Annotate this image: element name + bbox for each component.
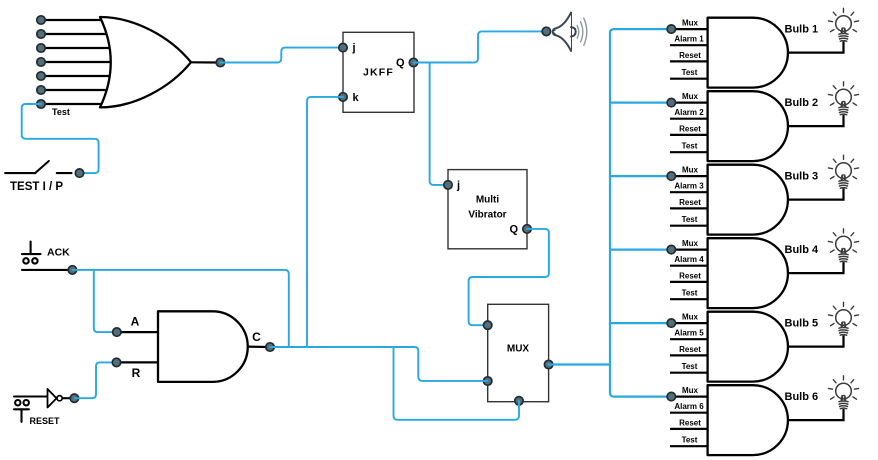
svg-text:Test: Test — [682, 289, 698, 298]
node MUX output — [544, 360, 552, 368]
wire Mux input line (gate 5) — [671, 322, 708, 324]
wire MultiVibrator Q to MUX — [469, 229, 549, 325]
wire ACK to C junction — [72, 270, 288, 347]
node OR input 2 — [37, 30, 45, 38]
wire Bulb 2 output — [788, 115, 844, 126]
wire OR output to JKFF J — [220, 48, 343, 63]
wire A input stub — [117, 331, 159, 333]
block U4 Multi Vibrator — [448, 170, 527, 249]
pushbutton ACK — [22, 242, 69, 270]
wire trunk branch to Mux 2 — [610, 101, 671, 103]
lamp Bulb 3 — [828, 155, 858, 188]
wire Reset input line (gate 6) — [670, 428, 709, 430]
wire trunk branch to Mux 4 — [610, 249, 671, 251]
wire OR input 3 — [41, 47, 115, 49]
lamp Bulb 4 — [828, 229, 858, 262]
svg-text:ACK: ACK — [47, 246, 70, 258]
svg-text:C: C — [252, 330, 261, 344]
pushbutton RESET — [14, 397, 48, 422]
wire Reset input line (gate 4) — [670, 281, 709, 283]
node MultiVibrator pin J — [444, 181, 452, 189]
wire Mux input line (gate 4) — [671, 249, 708, 251]
node OR input 6 — [37, 86, 45, 94]
svg-text:Reset: Reset — [679, 418, 701, 427]
svg-text:Alarm 1: Alarm 1 — [674, 35, 704, 44]
wire Reset input line (gate 2) — [670, 134, 709, 136]
wire Alarm 6 input line — [670, 412, 709, 414]
svg-text:JKFF: JKFF — [363, 67, 394, 79]
node MUX input lower-left — [484, 377, 492, 385]
svg-text:Alarm 5: Alarm 5 — [674, 329, 704, 338]
svg-text:Mux: Mux — [682, 313, 699, 322]
and-gate G4 (Bulb 4 driver) — [708, 238, 788, 308]
svg-text:Bulb 6: Bulb 6 — [785, 391, 819, 403]
and-gate G1 (Bulb 1 driver) — [708, 18, 788, 88]
node Mux input 3 — [667, 172, 675, 180]
wire Test input line (gate 3) — [670, 225, 709, 227]
svg-text:Test: Test — [682, 436, 698, 445]
svg-text:Q: Q — [509, 224, 518, 236]
wire C to MUX lower-left — [270, 347, 488, 381]
wire C branch to MUX bottom — [394, 347, 520, 420]
wire MUX output to trunk — [549, 363, 610, 365]
block U5 MUX — [488, 304, 549, 401]
wire inverter output stub — [62, 397, 71, 399]
wire Mux input line (gate 1) — [671, 28, 708, 30]
node OR output — [216, 58, 224, 66]
inverter (NOT gate) on RESET — [48, 389, 57, 408]
and-gate G3 (Bulb 3 driver) — [708, 165, 788, 235]
svg-text:Test: Test — [682, 68, 698, 77]
svg-text:MUX: MUX — [507, 343, 530, 354]
wire JKFF Q to speaker — [414, 31, 547, 62]
svg-text:Reset: Reset — [679, 271, 701, 280]
svg-text:Test: Test — [682, 362, 698, 371]
wire Test input line (gate 6) — [670, 445, 709, 447]
wire Bulb 4 output — [788, 262, 844, 273]
node OR input 1 — [37, 16, 45, 24]
node speaker input — [542, 27, 550, 35]
node OR input 3 — [37, 44, 45, 52]
node C output — [266, 343, 274, 351]
wire trunk branch to Mux 5 — [610, 322, 671, 324]
lamp Bulb 1 — [828, 8, 858, 41]
wire Mux input line (gate 2) — [671, 101, 708, 103]
svg-text:Alarm 4: Alarm 4 — [674, 255, 704, 264]
svg-text:Vibrator: Vibrator — [468, 209, 506, 220]
speaker sound waves — [577, 18, 587, 45]
node Mux input 5 — [667, 319, 675, 327]
wire distribution trunk — [610, 29, 671, 397]
svg-text:Alarm 2: Alarm 2 — [674, 108, 704, 117]
svg-text:R: R — [132, 366, 141, 380]
svg-text:j: j — [456, 180, 460, 192]
wire Test input line (gate 5) — [670, 372, 709, 374]
wire Alarm 2 input line — [670, 118, 709, 120]
switch TEST I/P — [5, 161, 71, 173]
node OR input 5 — [37, 72, 45, 80]
wire Alarm 1 input line — [670, 44, 709, 46]
svg-text:Multi: Multi — [476, 195, 500, 206]
and-gate U2 (ACK/RESET combiner) — [158, 311, 248, 382]
svg-text:Mux: Mux — [682, 239, 699, 248]
wire Bulb 5 output — [788, 336, 844, 347]
node OR input 7 — [37, 100, 45, 108]
wire Bulb 1 output — [788, 42, 844, 53]
lamp Bulb 6 — [828, 376, 858, 409]
svg-text:j: j — [352, 42, 356, 54]
svg-text:Mux: Mux — [682, 166, 699, 175]
lamp Bulb 5 — [828, 302, 858, 335]
node A input — [113, 328, 121, 336]
node Mux input 6 — [667, 392, 675, 400]
node ACK output — [68, 266, 76, 274]
node MUX input bottom — [515, 397, 523, 405]
wire OR input 6 — [41, 89, 115, 91]
svg-text:Bulb 5: Bulb 5 — [785, 317, 819, 329]
node RESET inverter output — [70, 394, 78, 402]
wire Reset input line (gate 3) — [670, 207, 709, 209]
wire Reset input line (gate 1) — [670, 60, 709, 62]
svg-text:Mux: Mux — [682, 386, 699, 395]
and-gate G6 (Bulb 6 driver) — [708, 385, 788, 455]
svg-text:Bulb 1: Bulb 1 — [785, 23, 819, 35]
svg-text:Bulb 4: Bulb 4 — [785, 244, 819, 256]
svg-text:Mux: Mux — [682, 19, 699, 28]
flip-flop U3 JKFF — [343, 32, 414, 112]
node Mux input 4 — [667, 245, 675, 253]
wire Alarm 5 input line — [670, 338, 709, 340]
svg-text:Test: Test — [682, 215, 698, 224]
wire OR input 7 — [41, 103, 115, 105]
wire Alarm 3 input line — [670, 191, 709, 193]
wire Test input line (gate 1) — [670, 78, 709, 80]
svg-text:Test: Test — [682, 142, 698, 151]
node MUX input top-left — [484, 321, 492, 329]
wire OR input 4 — [41, 61, 115, 63]
wire Mux input line (gate 6) — [671, 396, 708, 398]
wire OR input 1 — [41, 19, 115, 21]
wire Reset input line (gate 5) — [670, 354, 709, 356]
wire Bulb 3 output — [788, 189, 844, 200]
wire Test input to TEST switch — [22, 104, 99, 173]
node JKFF pin J — [339, 43, 347, 51]
and-gate G2 (Bulb 2 driver) — [708, 91, 788, 161]
wire Mux input line (gate 3) — [671, 175, 708, 177]
node MultiVibrator pin Q — [523, 225, 531, 233]
svg-text:Reset: Reset — [679, 198, 701, 207]
wire OR input 5 — [41, 75, 115, 77]
wire Test input line (gate 2) — [670, 151, 709, 153]
node JKFF pin Q — [409, 58, 417, 66]
svg-text:A: A — [131, 315, 140, 329]
wire Test input line (gate 4) — [670, 298, 709, 300]
svg-text:Alarm 3: Alarm 3 — [674, 182, 704, 191]
node JKFF pin K — [339, 93, 347, 101]
wire OR input 2 — [41, 33, 115, 35]
svg-text:Reset: Reset — [679, 124, 701, 133]
svg-text:Mux: Mux — [682, 92, 699, 101]
node Mux input 1 — [667, 25, 675, 33]
svg-text:Bulb 2: Bulb 2 — [785, 97, 819, 109]
wire trunk branch to Mux 3 — [610, 175, 671, 177]
svg-text:TEST I / P: TEST I / P — [10, 181, 63, 193]
wire Bulb 6 output — [788, 409, 844, 420]
wire ACK branch to A — [94, 270, 117, 332]
svg-text:RESET: RESET — [30, 416, 61, 426]
and-gate G5 (Bulb 5 driver) — [708, 312, 788, 382]
node R input — [112, 358, 120, 366]
node Mux input 2 — [667, 98, 675, 106]
lamp Bulb 2 — [828, 82, 858, 115]
wire JKFF K to C junction — [307, 97, 343, 347]
node TEST switch output — [75, 169, 83, 177]
speaker (alarm horn) — [553, 13, 576, 51]
or-gate U1 (7-input OR) — [100, 17, 191, 107]
svg-text:Alarm 6: Alarm 6 — [674, 402, 704, 411]
svg-text:Reset: Reset — [679, 51, 701, 60]
wire Alarm 4 input line — [670, 265, 709, 267]
svg-text:Q: Q — [396, 57, 405, 69]
wire RESET to R — [74, 362, 116, 398]
svg-text:Test: Test — [52, 107, 70, 117]
wire R input stub — [117, 361, 160, 363]
node OR input 4 — [37, 58, 45, 66]
svg-text:Bulb 3: Bulb 3 — [785, 170, 819, 182]
wire C output stub — [248, 345, 267, 348]
wire JKFF Q branch to MultiVibrator J — [430, 63, 448, 185]
svg-text:k: k — [353, 92, 360, 104]
wire OR output stub — [191, 61, 217, 63]
svg-text:Reset: Reset — [679, 345, 701, 354]
